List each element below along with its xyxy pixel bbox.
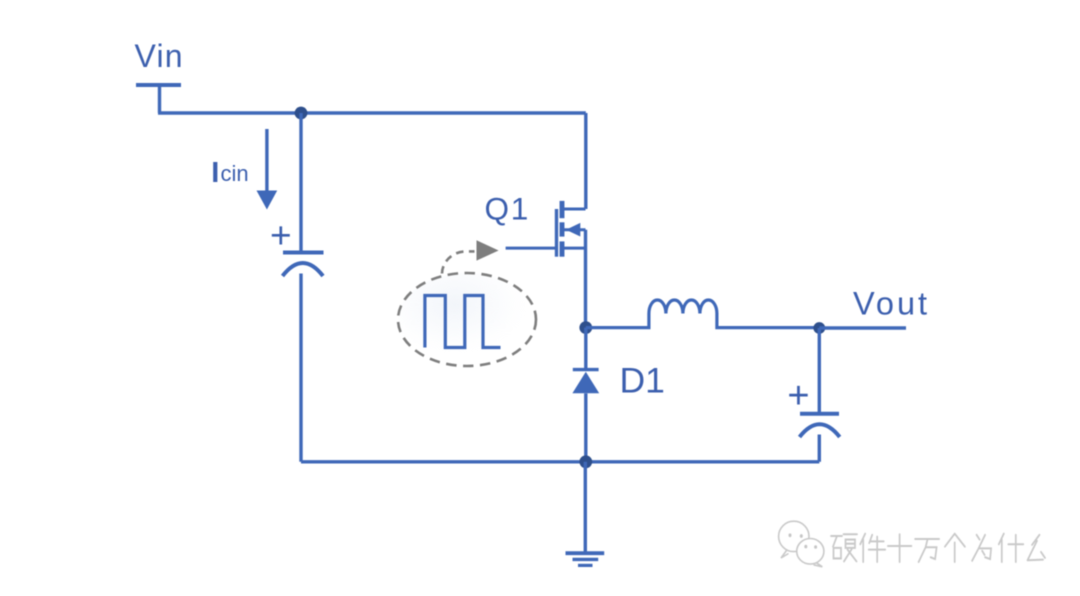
- PWM source ellipse: [398, 273, 536, 366]
- wire gate lead: [506, 247, 557, 250]
- wire drain drop: [584, 113, 587, 209]
- svg-text:D1: D1: [620, 361, 665, 401]
- char jian (piece): [860, 534, 885, 562]
- watermark text: [831, 534, 1045, 562]
- node output junction: [813, 322, 825, 334]
- wire Cin bottom lead: [299, 274, 302, 462]
- annotation dashed arrow to gate: [442, 240, 499, 273]
- wire Cout top lead: [818, 328, 821, 412]
- transistor Q1: [557, 201, 586, 257]
- svg-text:Q1: Q1: [485, 191, 531, 227]
- svg-text:Vout: Vout: [853, 285, 930, 321]
- node switch junction: [579, 321, 592, 334]
- wire diode bottom lead: [584, 393, 587, 461]
- ground: [566, 553, 605, 565]
- capacitor Cout: [800, 414, 840, 437]
- current arrow Icin: [257, 129, 278, 210]
- wire Vout lead: [819, 326, 906, 329]
- svg-text:+: +: [270, 215, 292, 256]
- svg-text:cin: cin: [221, 161, 249, 186]
- wire top rail: [158, 111, 586, 114]
- char ge (unit): [945, 534, 965, 562]
- node ground junction: [579, 455, 592, 468]
- terminal Vin: [136, 83, 181, 87]
- inductor L1: [586, 300, 820, 328]
- char shi (ten): [888, 534, 912, 562]
- wire Cout bottom lead: [818, 435, 821, 462]
- char ying (hard): [831, 534, 857, 561]
- char shen (what): [999, 534, 1024, 562]
- capacitor Cin: [283, 253, 324, 277]
- diode D1: [572, 370, 599, 394]
- wire source to switch node: [584, 230, 587, 328]
- wire bottom rail: [301, 460, 819, 463]
- wire diode top lead: [584, 328, 587, 369]
- wire ground lead: [584, 462, 587, 552]
- node input junction: [295, 107, 308, 120]
- char wan (ten-thousand): [915, 539, 939, 562]
- label Icin: [211, 157, 248, 189]
- svg-text:Vin: Vin: [135, 38, 184, 74]
- char me: [1028, 535, 1046, 560]
- wire Vin stub: [158, 85, 161, 113]
- wire Cin top lead: [299, 113, 302, 252]
- PWM waveform: [425, 296, 501, 348]
- svg-text:I: I: [211, 157, 219, 189]
- svg-text:+: +: [787, 375, 809, 417]
- watermark logo: [779, 521, 824, 567]
- char wei (for): [972, 535, 991, 561]
